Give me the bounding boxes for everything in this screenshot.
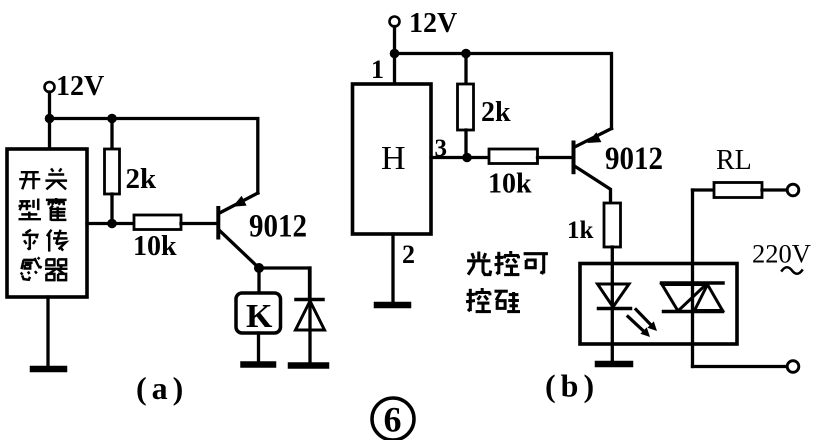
wire 2k top (a) [110,119,113,150]
char 控 [466,288,491,312]
char 霍 [46,198,67,221]
triac bottom bar [664,310,723,314]
ground sensor (a) [33,366,64,373]
terminal AC bottom [787,361,799,373]
triac right triangle [695,285,723,311]
LED in opto: wire through [611,264,614,363]
wire bus to sensor box (a) [48,119,51,150]
node junction bus left (b) [390,49,400,59]
terminal +12V (b) [390,17,400,27]
resistor 10k (a) [134,215,181,230]
wire H pin3 to 10k [431,156,489,159]
figure number 6 circled [372,398,414,440]
resistor 10k (b) [489,149,538,164]
resistor 1k [604,203,621,247]
triac vertical wire [691,190,694,367]
svg-text:12V: 12V [409,8,457,39]
LED cathode bar [599,307,631,311]
char 可 [524,254,548,274]
resistor 2k (b) [458,84,474,130]
terminal AC top [787,184,799,196]
wire H pin2 to ground [391,234,394,304]
wire supply bus (a) [50,119,258,194]
svg-text:(a): (a) [136,370,188,406]
wire 10k to base (a) [181,222,217,225]
hall sensor box (a) [7,149,87,297]
svg-text:H: H [381,140,406,177]
wire supply bus (b) [395,54,612,129]
wire 12V terminal to bus (a) [48,92,51,119]
wire 2k bottom to node (b) [464,130,467,158]
svg-text:K: K [246,298,273,335]
char 控 [495,251,520,275]
node junction pin3 (b) [462,153,472,163]
wire bus to H pin1 [393,54,396,85]
ground H (b) [377,302,408,309]
light arrows [628,310,657,338]
node junction 2k top (a) [107,114,117,124]
label 光控可控硅 [466,251,548,312]
transistor Q1 9012 base bar (a) [216,208,220,238]
transistor Q2 emitter with arrow (b) [576,129,612,147]
svg-text:RL: RL [716,145,752,176]
char 感 [21,258,42,280]
terminal +12V (a) [45,82,55,92]
node junction base net (a) [107,219,117,229]
ground diode (a) [291,362,326,369]
svg-text:220V: 220V [752,239,811,269]
wire triac top to RL [693,188,715,191]
transistor Q2 collector (b) [576,167,611,203]
ground LED [598,361,630,368]
transistor Q2 9012 base bar (b) [572,143,576,173]
tilde under V [782,267,802,274]
ground relay (a) [244,361,274,368]
svg-text:12V: 12V [56,71,104,102]
svg-text:9012: 9012 [605,141,663,177]
wire RL to terminal [762,188,787,191]
wire collector to diode (a) [259,268,310,297]
svg-text:(b): (b) [545,368,599,404]
char 硅 [495,291,521,311]
svg-text:9012: 9012 [249,209,307,245]
char 器 [45,259,68,280]
triac left triangle [662,285,706,312]
hall IC H box [353,84,432,234]
wire relay to ground (a) [257,333,260,363]
svg-text:2k: 2k [126,163,158,195]
resistor 2k (a) [105,149,120,194]
svg-text:10k: 10k [133,231,177,262]
wire sensor box to ground (a) [46,297,49,368]
node junction collector (a) [254,263,264,273]
diode D1 [296,268,325,364]
svg-text:1k: 1k [567,217,594,244]
wire 12V terminal to bus (b) [393,27,396,54]
triac top bar [662,281,724,285]
wire triac bottom to terminal [693,365,788,368]
char 光 [467,252,491,275]
optocoupler box [580,264,737,345]
wire collector to relay (a) [257,268,260,293]
transistor Q1 emitter with arrow (a) [221,193,258,213]
wire 10k to base (b) [538,156,572,159]
char 型 [19,199,42,220]
relay K box [236,293,281,333]
transistor Q1 collector (a) [220,231,259,268]
svg-text:10k: 10k [488,169,532,200]
node junction 2k top (b) [461,49,471,59]
svg-text:6: 6 [384,400,402,440]
LED triangle [598,284,630,307]
label 开关型霍尔传感器 [19,168,68,280]
char 尔 [22,230,37,250]
node junction bus left (a) [45,114,55,124]
char 开 [19,172,40,189]
svg-text:1: 1 [371,55,384,84]
resistor RL [714,183,762,198]
char 传 [47,230,68,252]
svg-text:2k: 2k [481,97,511,128]
wire 2k top (b) [464,54,467,85]
char 关 [45,168,67,189]
wire 1k to opto box [611,247,614,264]
wire sensor output to 10k (a) [87,222,134,225]
wire 2k bottom to node (a) [110,194,113,224]
svg-text:2: 2 [402,240,415,269]
